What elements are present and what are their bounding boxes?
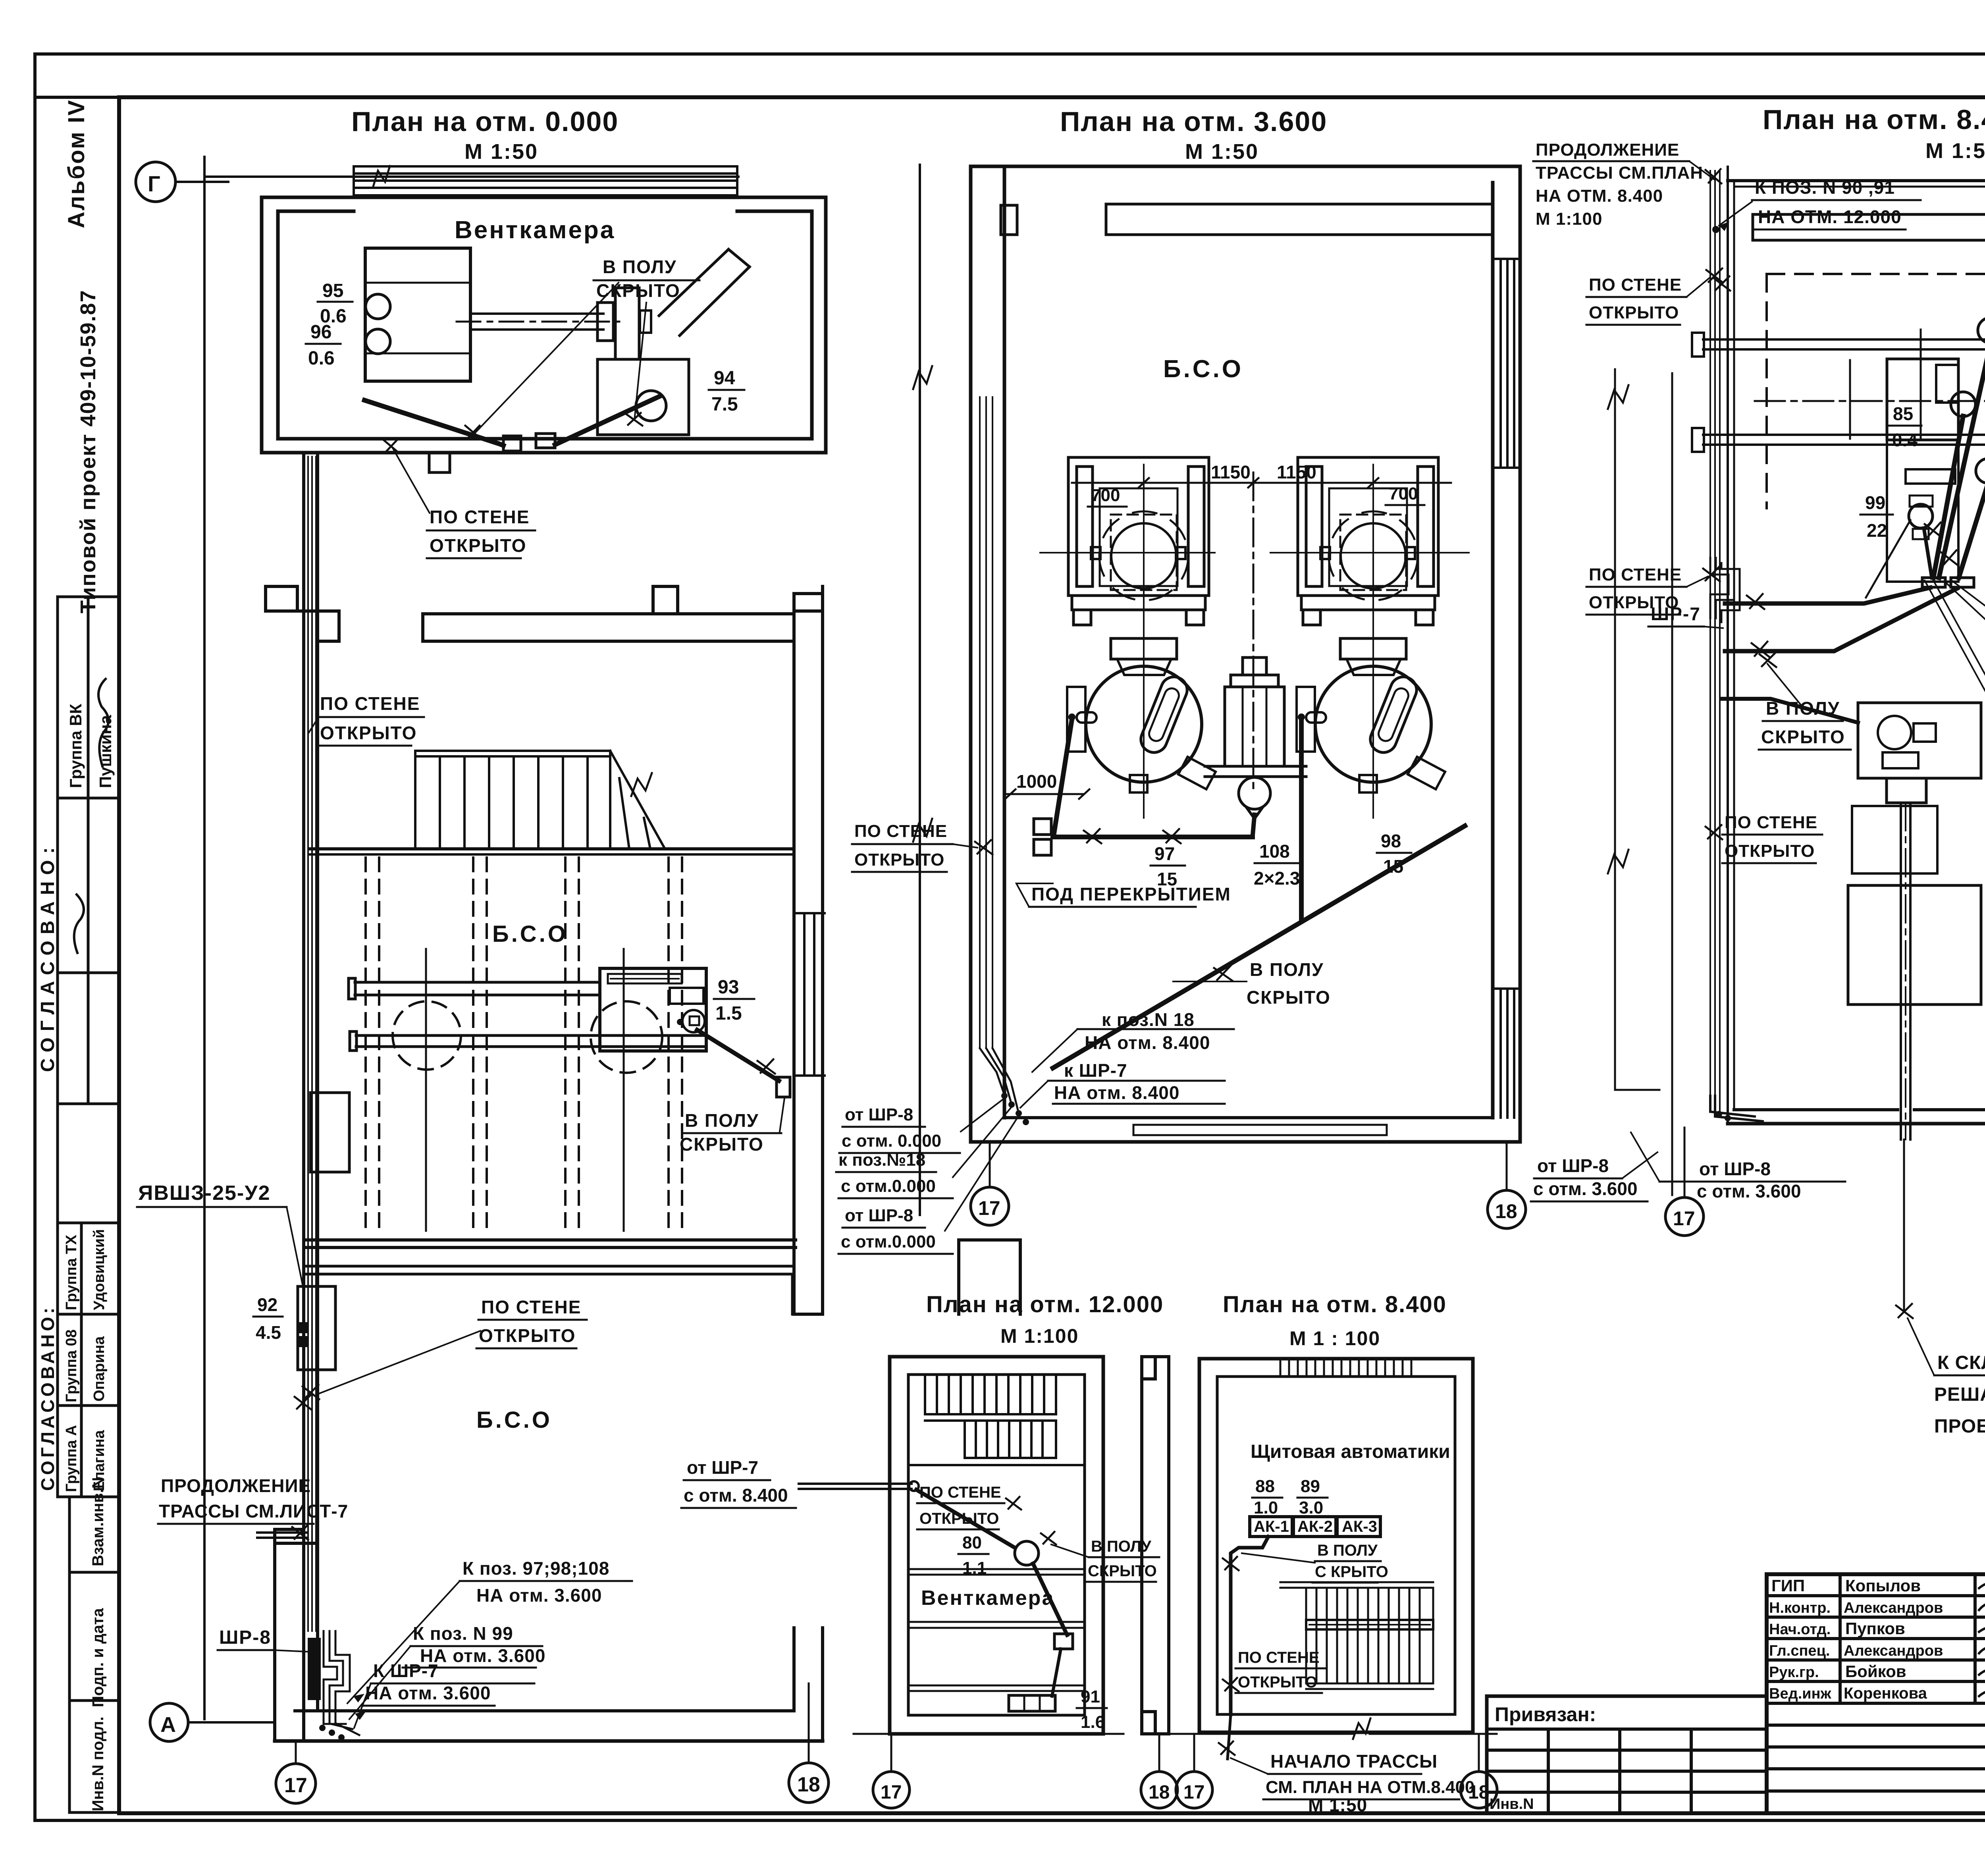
lamp circle xyxy=(1015,1541,1039,1565)
svg-text:ОТКРЫТО: ОТКРЫТО xyxy=(430,535,526,556)
svg-text:Инв.N подл.: Инв.N подл. xyxy=(89,1716,107,1811)
label в полу скрыто xyxy=(680,1110,764,1155)
svg-text:М 1:100: М 1:100 xyxy=(1536,209,1602,229)
top beam xyxy=(1753,213,1985,216)
signature squiggle xyxy=(98,679,108,766)
svg-text:к ШР-7: к ШР-7 xyxy=(1064,1060,1127,1081)
svg-text:Альбом IV: Альбом IV xyxy=(64,99,89,228)
x mark on wire xyxy=(1006,1497,1021,1510)
box ИНВ.N ПОДЛ. xyxy=(69,1701,119,1812)
svg-text:с отм.0.000: с отм.0.000 xyxy=(841,1232,936,1251)
svg-text:1000: 1000 xyxy=(1016,771,1057,792)
svg-text:Венткамера: Венткамера xyxy=(921,1587,1054,1610)
axis 18 circle xyxy=(808,1683,810,1763)
svg-text:от ШР-7: от ШР-7 xyxy=(687,1457,758,1478)
svg-text:СОГЛАСОВАНО:: СОГЛАСОВАНО: xyxy=(37,1305,58,1491)
svg-text:с отм.0.000: с отм.0.000 xyxy=(841,1176,936,1196)
label в полу скрыто (left) xyxy=(1761,698,1845,747)
break marks xyxy=(913,366,932,389)
left wire bundle xyxy=(1710,171,1720,1112)
svg-text:АК-1: АК-1 xyxy=(1254,1518,1289,1535)
wire bundle along left wall xyxy=(980,397,992,1048)
label 94/7.5 xyxy=(711,368,738,415)
circle 85 xyxy=(1951,392,1975,416)
svg-text:15: 15 xyxy=(1383,856,1403,877)
wire to lower machine xyxy=(1721,699,1858,723)
hall bottom band walls xyxy=(304,1238,796,1242)
svg-text:3.0: 3.0 xyxy=(1299,1498,1323,1517)
staircase upper flight xyxy=(908,1376,1085,1465)
svg-text:от ШР-8: от ШР-8 xyxy=(1537,1155,1609,1176)
foundation rect xyxy=(1848,885,1981,1005)
unit box xyxy=(615,288,639,359)
top dimension line xyxy=(204,175,738,178)
PLAN3 xyxy=(1533,104,1985,1437)
label по стене открыто (lower) xyxy=(479,1297,581,1346)
bundle elbow zigzag xyxy=(1710,558,1740,622)
PLAN2 xyxy=(836,106,1657,1254)
svg-text:СМ. ПЛАН НА ОТМ.8.400: СМ. ПЛАН НА ОТМ.8.400 xyxy=(1266,1778,1474,1797)
svg-text:89: 89 xyxy=(1301,1477,1320,1496)
leaders to bottom-left labels xyxy=(945,1098,1019,1231)
label по стене открыто (middle) xyxy=(320,693,420,743)
svg-text:22: 22 xyxy=(1867,520,1887,541)
svg-text:с отм. 3.600: с отм. 3.600 xyxy=(1697,1181,1801,1201)
wire diagonal to mixer2 / в полу xyxy=(1299,719,1304,920)
machine centerlines xyxy=(1143,465,1145,818)
svg-text:Группа ТХ: Группа ТХ xyxy=(63,1234,80,1310)
label в полу скрыто xyxy=(1088,1538,1157,1580)
bottom-left wall jog xyxy=(275,1529,318,1741)
svg-text:93: 93 xyxy=(718,977,739,998)
bottom device box xyxy=(1009,1695,1055,1711)
labels к поз.N 18 / к ШР-7 xyxy=(1054,1009,1210,1103)
PLAN84 xyxy=(854,1292,1497,1815)
svg-text:ПРОДОЛЖЕНИЕ: ПРОДОЛЖЕНИЕ xyxy=(1536,140,1679,160)
top band bottom line xyxy=(35,96,1985,99)
svg-text:17: 17 xyxy=(978,1197,1000,1219)
stairs lower xyxy=(1280,1582,1433,1689)
column shaft between plans xyxy=(959,1240,1020,1314)
label 98/15 xyxy=(1381,831,1403,877)
svg-text:К СКЛАДУ ЦЕМЕНТА: К СКЛАДУ ЦЕМЕНТА xyxy=(1937,1352,1985,1373)
svg-text:с отм. 0.000: с отм. 0.000 xyxy=(842,1131,941,1151)
svg-text:1.6: 1.6 xyxy=(1081,1712,1105,1732)
svg-text:к поз.N 18: к поз.N 18 xyxy=(1102,1009,1195,1030)
svg-text:2×2.3: 2×2.3 xyxy=(1254,868,1300,889)
label к поз. N 90,91 xyxy=(1755,177,1902,227)
label продолжение трассы см.лист-7 xyxy=(159,1475,348,1521)
top grille hatch xyxy=(1280,1359,1411,1377)
svg-text:Нач.отд.: Нач.отд. xyxy=(1769,1621,1831,1638)
box column section 1 xyxy=(58,596,119,598)
axis 17 xyxy=(890,1734,892,1770)
label продолжение трассы см.план xyxy=(1536,140,1703,229)
svg-text:ПО СТЕНЕ: ПО СТЕНЕ xyxy=(1238,1649,1320,1666)
svg-text:от ШР-8: от ШР-8 xyxy=(1699,1159,1771,1179)
TITLEBLOCK xyxy=(1487,1546,1985,1815)
label в полу скрыто xyxy=(596,256,680,301)
fan circle 95 xyxy=(366,294,390,319)
label по стене открыто xyxy=(430,507,530,556)
PLAN1 xyxy=(136,106,1020,1803)
svg-text:80: 80 xyxy=(962,1533,982,1552)
svg-text:НА отм. 3.600: НА отм. 3.600 xyxy=(420,1645,545,1666)
svg-text:М 1 : 100: М 1 : 100 xyxy=(1289,1327,1380,1350)
svg-text:ЯВШЗ-25-У2: ЯВШЗ-25-У2 xyxy=(138,1182,271,1205)
label 91/1.6 xyxy=(1081,1687,1105,1732)
wire to lamp xyxy=(916,1490,1015,1548)
svg-text:0.4: 0.4 xyxy=(1892,430,1918,450)
axis 18 xyxy=(1478,1734,1480,1771)
svg-text:88: 88 xyxy=(1255,1477,1275,1496)
svg-text:СКРЫТО: СКРЫТО xyxy=(1247,987,1331,1008)
motor xyxy=(1887,778,1926,803)
machine 99 xyxy=(1906,469,1955,484)
PLAN12 xyxy=(681,1292,1178,1808)
lower machine unit xyxy=(1858,703,1981,778)
center axis dash-dot xyxy=(1253,472,1255,788)
svg-text:ПО СТЕНЕ: ПО СТЕНЕ xyxy=(1589,565,1682,584)
svg-text:Бойков: Бойков xyxy=(1845,1662,1906,1681)
label 93/1.5 xyxy=(715,977,742,1024)
labels 88/1.0 89/3.0 xyxy=(1254,1477,1323,1517)
svg-text:1.0: 1.0 xyxy=(1254,1498,1278,1517)
wire horizontal run под перекрытием xyxy=(1053,835,1253,839)
plan3 dimension lines xyxy=(1614,369,1616,1090)
svg-text:СОГЛАСОВАНО:: СОГЛАСОВАНО: xyxy=(37,841,58,1072)
svg-text:от ШР-8: от ШР-8 xyxy=(845,1206,913,1225)
shaft continuation below wall xyxy=(1903,1139,1905,1310)
svg-text:Привязан:: Привязан: xyxy=(1495,1703,1596,1726)
svg-text:98: 98 xyxy=(1381,831,1401,851)
svg-text:Александров: Александров xyxy=(1844,1643,1943,1659)
axis Г circle xyxy=(136,162,175,202)
svg-text:СКРЫТО: СКРЫТО xyxy=(596,280,680,301)
middle band walls xyxy=(266,453,823,1741)
svg-text:7.5: 7.5 xyxy=(711,394,738,415)
title block top border xyxy=(1767,1572,1985,1576)
wire bundle along left wall xyxy=(308,457,316,1631)
bottom-left corner bundle elbow xyxy=(1710,1096,1755,1116)
svg-text:1.5: 1.5 xyxy=(715,1003,742,1024)
right wall window hatch lower xyxy=(1495,989,1520,1118)
svg-text:М 1:50: М 1:50 xyxy=(1308,1795,1367,1815)
svg-text:ПО СТЕНЕ: ПО СТЕНЕ xyxy=(481,1297,581,1317)
dim 1150 1150 xyxy=(1211,462,1316,482)
axis A circle xyxy=(150,1703,188,1741)
lower unit box xyxy=(597,359,689,435)
top wall xyxy=(1728,179,1985,182)
label от ШР-8 с отм.3.600 (below plan3) xyxy=(1697,1159,1801,1201)
AK boxes xyxy=(1250,1517,1292,1537)
svg-text:М 1:50: М 1:50 xyxy=(1185,140,1259,164)
binding box Привязан xyxy=(1487,1696,1767,1813)
svg-text:ГИП: ГИП xyxy=(1771,1576,1805,1595)
svg-text:ОТКРЫТО: ОТКРЫТО xyxy=(320,723,417,743)
axis 18 circle xyxy=(1506,1142,1508,1190)
top beam xyxy=(1106,203,1493,206)
wire from machine to wall box xyxy=(697,1030,779,1081)
svg-text:ТРАССЫ СМ.ПЛАН: ТРАССЫ СМ.ПЛАН xyxy=(1536,163,1703,183)
label в полу скрыто xyxy=(1315,1542,1388,1581)
svg-text:108: 108 xyxy=(1259,841,1290,862)
svg-text:Вед.инж: Вед.инж xyxy=(1769,1685,1832,1702)
svg-text:18: 18 xyxy=(1468,1782,1489,1803)
svg-text:ОТКРЫТО: ОТКРЫТО xyxy=(1238,1674,1317,1691)
stair rail bar xyxy=(1306,1620,1433,1629)
axis 17 circle xyxy=(1684,1128,1686,1197)
svg-text:17: 17 xyxy=(1673,1207,1695,1230)
wire dots xyxy=(319,1725,326,1731)
svg-text:Группа ВК: Группа ВК xyxy=(66,704,85,788)
box ВЗАМ.ИНВ.N xyxy=(69,1497,119,1572)
wire from mixer1 xyxy=(1054,719,1072,836)
svg-text:НА отм. 3.600: НА отм. 3.600 xyxy=(476,1585,602,1606)
svg-text:Щитовая автоматики: Щитовая автоматики xyxy=(1251,1441,1450,1462)
label по стене открыто (left) xyxy=(854,821,947,870)
x marks on bundle top xyxy=(1706,268,1723,283)
conveyor shaft xyxy=(1900,803,1902,1139)
signature squiggle xyxy=(74,895,84,953)
leader по стене открыто from bundle xyxy=(317,1331,480,1394)
bottom wall xyxy=(1734,1108,1898,1111)
diagonal duct xyxy=(659,249,728,316)
svg-text:ПРОДОЛЖЕНИЕ: ПРОДОЛЖЕНИЕ xyxy=(161,1475,311,1496)
svg-text:Гл.спец.: Гл.спец. xyxy=(1769,1643,1830,1659)
axis vertical line left xyxy=(203,157,206,1719)
label по стене открыто 1 xyxy=(1589,275,1682,322)
svg-text:НА ОТМ. 12.000: НА ОТМ. 12.000 xyxy=(1758,206,1902,227)
machine boxes on rails xyxy=(1887,359,1958,582)
junction plates xyxy=(1922,578,1945,587)
svg-text:М 1:50: М 1:50 xyxy=(1925,139,1985,163)
door threshold xyxy=(1133,1125,1387,1135)
svg-text:18: 18 xyxy=(797,1773,820,1796)
svg-text:Группа А: Группа А xyxy=(63,1425,80,1492)
circle 83 xyxy=(1978,318,1985,343)
interior floor lines xyxy=(908,1569,1085,1691)
svg-text:1150: 1150 xyxy=(1277,462,1316,482)
leaders with arrows xyxy=(347,1581,460,1728)
center dash-dot xyxy=(1755,400,1985,402)
circle 84 xyxy=(1976,459,1985,483)
svg-text:ОТКРЫТО: ОТКРЫТО xyxy=(919,1510,999,1527)
SIDEBAR xyxy=(37,99,119,1812)
svg-text:План на отм. 3.600: План на отм. 3.600 xyxy=(1060,106,1327,137)
label начало трассы xyxy=(1266,1751,1474,1815)
label к складу цемента xyxy=(1934,1352,1985,1437)
stairs direction arrow xyxy=(631,773,652,796)
svg-text:17: 17 xyxy=(881,1782,902,1803)
svg-text:НА отм. 8.400: НА отм. 8.400 xyxy=(1054,1082,1179,1103)
svg-text:Б.С.О: Б.С.О xyxy=(1163,355,1243,383)
mixer 1 xyxy=(1086,666,1202,782)
crane rails upper xyxy=(1692,333,1985,452)
x marks xyxy=(465,426,481,439)
walls xyxy=(971,166,1520,1142)
vent grille band xyxy=(354,166,737,195)
outer walls xyxy=(890,1357,1103,1734)
svg-text:700: 700 xyxy=(1091,486,1120,505)
label 92/4.5 xyxy=(256,1294,281,1343)
svg-text:ОТКРЫТО: ОТКРЫТО xyxy=(1589,303,1679,322)
svg-text:85: 85 xyxy=(1893,403,1913,424)
nested wire elbows xyxy=(324,1631,359,1735)
svg-text:В ПОЛУ: В ПОЛУ xyxy=(603,256,677,277)
label по стене открыто 2 xyxy=(1589,565,1682,612)
label в полу скрыто xyxy=(1247,959,1331,1008)
label 97/15 xyxy=(1154,843,1177,889)
svg-text:Группа 08: Группа 08 xyxy=(63,1329,80,1402)
label по стене открыто xyxy=(919,1484,1001,1527)
stairs xyxy=(415,751,665,849)
svg-text:Копылов: Копылов xyxy=(1845,1576,1921,1595)
dashed column lines xyxy=(366,858,682,1234)
svg-text:Удовицкий: Удовицкий xyxy=(91,1229,108,1310)
top-left wall tab xyxy=(1001,205,1017,235)
ventkamera walls xyxy=(262,197,826,453)
svg-text:Н.контр.: Н.контр. xyxy=(1769,1600,1831,1616)
svg-text:План на отм. 12.000: План на отм. 12.000 xyxy=(926,1292,1164,1317)
wire from AK down xyxy=(1231,1537,1268,1714)
svg-text:АК-3: АК-3 xyxy=(1342,1518,1377,1535)
box column section 2 xyxy=(58,1222,119,1224)
washer unit 2 xyxy=(1298,457,1438,625)
svg-text:НА ОТМ. 8.400: НА ОТМ. 8.400 xyxy=(1536,186,1663,206)
signature table frame xyxy=(1765,1574,1769,1813)
svg-text:С КРЫТО: С КРЫТО xyxy=(1315,1563,1388,1581)
svg-text:План на отм. 0.000: План на отм. 0.000 xyxy=(351,106,619,137)
svg-text:К поз. 97;98;108: К поз. 97;98;108 xyxy=(463,1558,609,1579)
thin centerlines xyxy=(426,949,624,1231)
trass continuation wires xyxy=(257,1531,306,1534)
svg-text:92: 92 xyxy=(257,1294,278,1315)
SHR-8 black box xyxy=(308,1638,321,1700)
wire runs from bundle to plates xyxy=(1725,588,1930,603)
left dimension line xyxy=(919,165,921,1215)
svg-text:Коренкова: Коренкова xyxy=(1844,1685,1927,1702)
svg-text:Рук.гр.: Рук.гр. xyxy=(1769,1664,1819,1681)
svg-text:РЕШАЕТСЯ ПРИ ПРИВЯЗКЕ: РЕШАЕТСЯ ПРИ ПРИВЯЗКЕ xyxy=(1934,1384,1985,1405)
right wall strip xyxy=(1142,1357,1169,1734)
fan unit box xyxy=(365,248,470,381)
svg-text:97: 97 xyxy=(1154,843,1175,864)
svg-text:18: 18 xyxy=(1495,1200,1517,1222)
svg-text:М 1:50: М 1:50 xyxy=(464,140,538,164)
axis 17 circle xyxy=(989,1142,991,1186)
svg-text:Александров: Александров xyxy=(1844,1600,1943,1616)
axis 17 circle xyxy=(295,1743,297,1764)
svg-text:0.6: 0.6 xyxy=(308,348,335,369)
wire continuation below wall xyxy=(1228,1714,1231,1759)
svg-text:Типовой проект 409-10-59.87: Типовой проект 409-10-59.87 xyxy=(76,289,100,613)
duct lines xyxy=(470,312,603,315)
bottom wall xyxy=(1004,1116,1493,1119)
svg-text:М 1:100: М 1:100 xyxy=(1000,1325,1079,1347)
svg-text:ПО СТЕНЕ: ПО СТЕНЕ xyxy=(320,693,420,714)
x on bundle xyxy=(975,840,992,854)
washer unit 1 xyxy=(1068,457,1209,625)
svg-text:НА отм. 8.400: НА отм. 8.400 xyxy=(1085,1032,1210,1053)
leader to по стене открыто xyxy=(393,449,430,513)
svg-text:ПО СТЕНЕ: ПО СТЕНЕ xyxy=(430,507,530,527)
door tab xyxy=(429,453,450,472)
bundle bottom fan xyxy=(980,1048,1004,1093)
leader xyxy=(309,719,318,733)
svg-text:91: 91 xyxy=(1081,1687,1100,1706)
ground line with break xyxy=(1171,1733,1354,1735)
bottom wall xyxy=(295,1709,794,1712)
wire from lamp down xyxy=(1033,1564,1067,1635)
axis 18 xyxy=(1158,1734,1160,1770)
labels к поз xyxy=(365,1558,609,1703)
YAVSH cabinet xyxy=(298,1286,335,1370)
svg-text:ШР-7: ШР-7 xyxy=(1651,603,1701,624)
box ПОДП. И ДАТА xyxy=(69,1572,119,1701)
svg-text:ОТКРЫТО: ОТКРЫТО xyxy=(479,1325,576,1346)
svg-text:Венткамера: Венткамера xyxy=(455,216,615,244)
svg-text:ПО СТЕНЕ: ПО СТЕНЕ xyxy=(1589,275,1682,295)
svg-text:700: 700 xyxy=(1389,484,1418,503)
svg-text:В ПОЛУ: В ПОЛУ xyxy=(1250,959,1324,980)
svg-text:А: А xyxy=(160,1713,176,1737)
svg-text:АК-2: АК-2 xyxy=(1297,1518,1333,1535)
svg-text:В ПОЛУ: В ПОЛУ xyxy=(1317,1542,1378,1559)
right wall window hatch xyxy=(1495,259,1520,468)
svg-text:В ПОЛУ: В ПОЛУ xyxy=(685,1110,759,1131)
incoming wires from ШР-7 xyxy=(799,1483,912,1485)
svg-text:95: 95 xyxy=(322,280,343,301)
svg-text:ТРАССЫ СМ.ЛИСТ-7: ТРАССЫ СМ.ЛИСТ-7 xyxy=(159,1501,348,1521)
label 95/0.6 xyxy=(320,280,347,327)
svg-text:Пупков: Пупков xyxy=(1845,1619,1905,1638)
svg-text:Опарина: Опарина xyxy=(91,1336,108,1402)
unit circle 94 xyxy=(636,391,666,421)
svg-text:ПРОЕКТА: ПРОЕКТА xyxy=(1934,1416,1985,1437)
svg-text:Г: Г xyxy=(148,171,160,196)
label от ШР-7 с отм 8.400 xyxy=(684,1457,788,1506)
svg-text:4.5: 4.5 xyxy=(256,1322,281,1343)
machine 93 box xyxy=(600,968,706,1051)
label 96/0.6 xyxy=(308,322,335,369)
break mark xyxy=(373,166,390,187)
svg-text:99: 99 xyxy=(1865,492,1885,513)
mixer 2 xyxy=(1315,666,1431,782)
label 80/1.1 xyxy=(962,1533,987,1578)
svg-text:ПОД ПЕРЕКРЫТИЕМ: ПОД ПЕРЕКРЫТИЕМ xyxy=(1031,884,1231,904)
svg-text:НА отм. 3.600: НА отм. 3.600 xyxy=(365,1683,491,1703)
center pump xyxy=(1205,657,1306,837)
axis 17 xyxy=(1193,1734,1195,1771)
svg-text:с отм. 8.400: с отм. 8.400 xyxy=(684,1485,788,1506)
svg-text:18: 18 xyxy=(1149,1782,1170,1803)
left wall lines xyxy=(1727,167,1729,1124)
label по стене открыто 3 xyxy=(1725,813,1817,861)
svg-text:Взам.инв.N: Взам.инв.N xyxy=(89,1477,107,1566)
BSO hall top wall xyxy=(310,847,794,850)
svg-text:Б.С.О: Б.С.О xyxy=(476,1407,552,1433)
signatures squiggles xyxy=(1979,1581,1985,1589)
label от ШР-8 с отм 3.600 (right of 18) xyxy=(1533,1155,1638,1199)
svg-text:К поз. N 99: К поз. N 99 xyxy=(413,1623,513,1644)
outer walls xyxy=(1199,1359,1473,1732)
svg-text:План на отм. 8.400: План на отм. 8.400 xyxy=(1223,1292,1447,1317)
svg-text:В ПОЛУ: В ПОЛУ xyxy=(1091,1538,1152,1555)
svg-text:от ШР-8: от ШР-8 xyxy=(845,1105,913,1124)
svg-text:СКРЫТО: СКРЫТО xyxy=(680,1134,764,1155)
label по стене открыто xyxy=(1238,1649,1320,1691)
